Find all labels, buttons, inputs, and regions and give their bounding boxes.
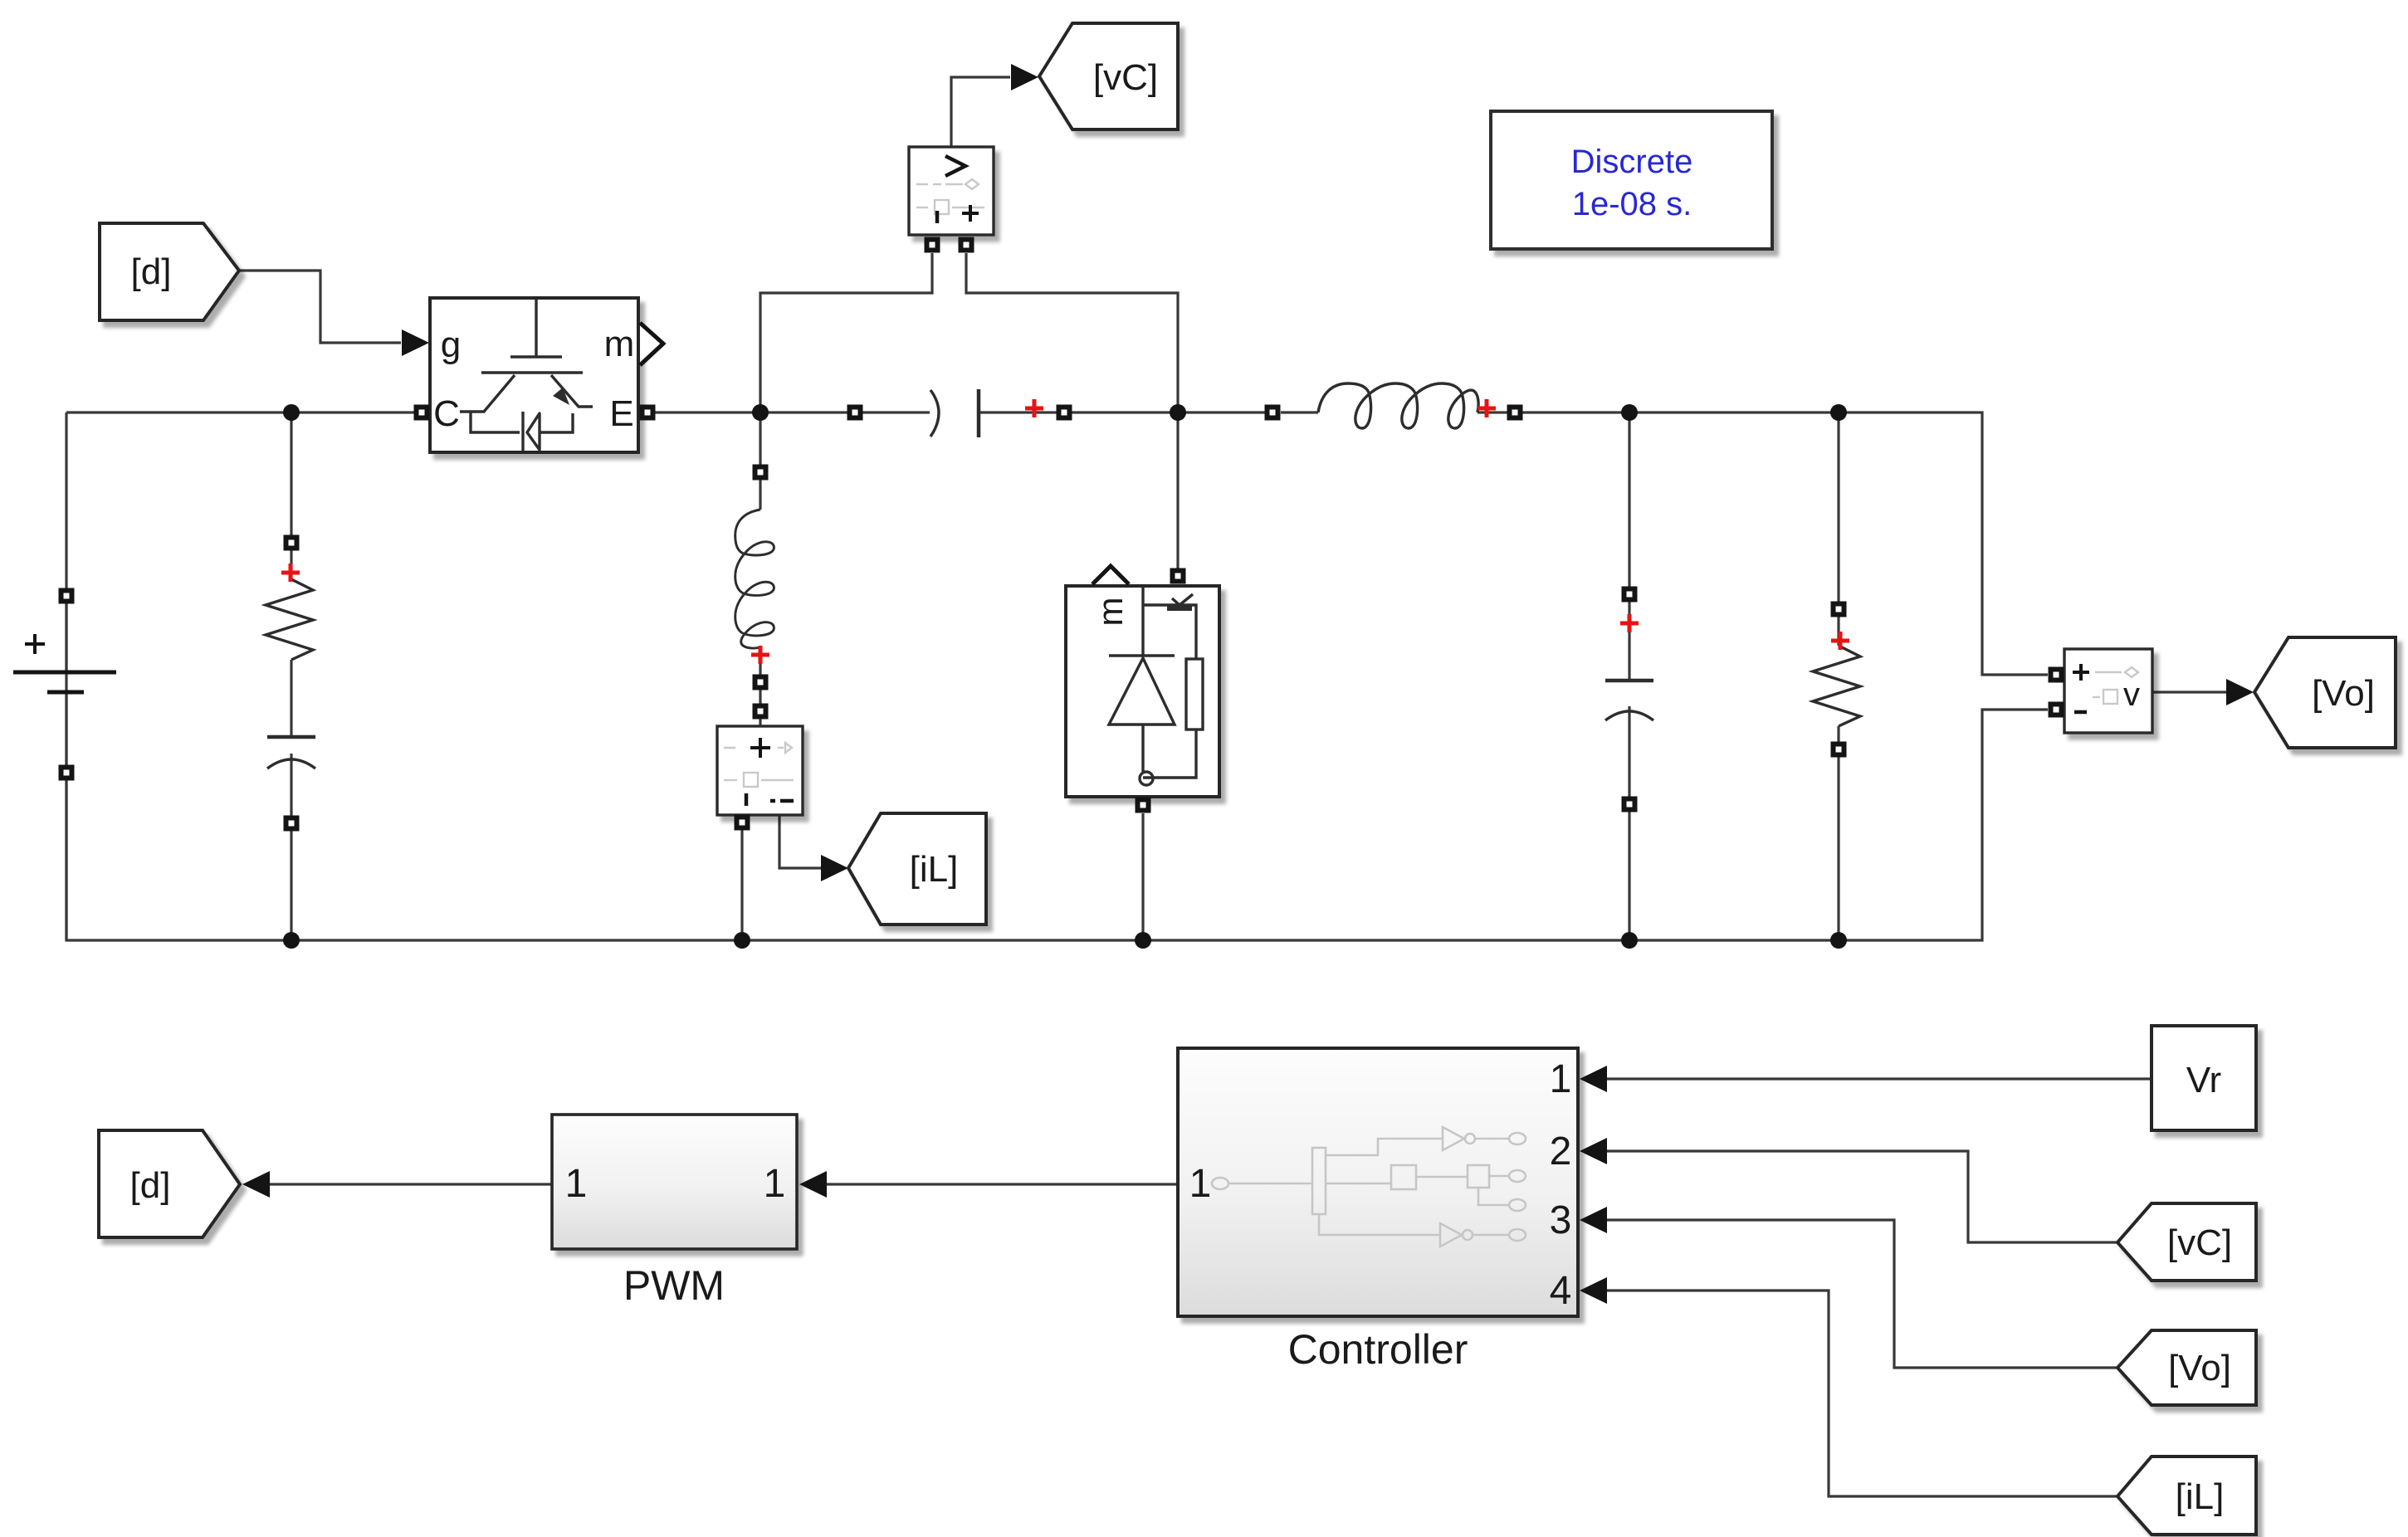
svg-text:E: E: [609, 393, 633, 434]
source block Vr: [2152, 1026, 2256, 1130]
Goto tag [Vo]: [2254, 637, 2396, 748]
svg-text:[vC]: [vC]: [2167, 1222, 2232, 1263]
port square Vm2 plus: [2049, 667, 2064, 683]
port square D1 top: [1170, 568, 1186, 584]
wire iL minus port to bottom bus: [740, 830, 743, 940]
wire Vm1 output to vC goto: [951, 77, 1010, 147]
wire R1C1 damping branch: [290, 412, 292, 940]
port square C1 right: [1057, 405, 1072, 421]
wire L2 to output node and down right edge to Vo+: [1281, 412, 2048, 675]
port square Vm1 plus: [959, 237, 974, 253]
capacitor C2 (output): [1605, 681, 1653, 720]
voltage measurement Vm2 (Vo): [2064, 649, 2152, 733]
port square CM1 top: [753, 704, 769, 720]
IGBT m output chevron: [640, 323, 663, 365]
wire Vm1 plus lead to node D: [966, 253, 1178, 411]
svg-text:Discrete: Discrete: [1571, 144, 1693, 180]
port square Vm2 minus: [2049, 702, 2064, 718]
polarity plus C2: [1620, 614, 1639, 632]
Goto tag [iL]: [848, 813, 986, 925]
wire battery branch: [65, 603, 67, 940]
wire PWM output to d goto: [270, 1183, 552, 1185]
svg-text:m: m: [1091, 598, 1130, 627]
Discrete solver annotation block: [1491, 111, 1772, 249]
resistor R1 (damping): [266, 579, 313, 660]
node junction dot N4 (C2 top): [1621, 404, 1638, 421]
port square D1 bottom: [1136, 798, 1151, 813]
wire Vr to Controller in1: [1607, 1077, 2152, 1080]
node junction dot N3 (diode top): [1170, 404, 1186, 421]
arrow into iL goto: [821, 855, 848, 881]
Goto tag [d] (bottom): [99, 1130, 240, 1237]
wire diode bottom to bus: [1141, 813, 1144, 940]
polarity plus L1: [751, 646, 769, 664]
resistor R2 (load): [1813, 646, 1860, 726]
node junction dot N5 (R2 top): [1830, 404, 1847, 421]
port square L1 top: [753, 465, 769, 481]
wire d goto to IGBT gate: [239, 271, 401, 343]
wire top bus left (source to IGBT C): [66, 411, 415, 413]
svg-text:[iL]: [iL]: [2176, 1476, 2225, 1517]
svg-text:[iL]: [iL]: [910, 849, 959, 890]
subsystem Controller: [1178, 1048, 1578, 1316]
port square C1 left: [847, 405, 863, 421]
svg-text:PWM: PWM: [623, 1262, 725, 1309]
svg-text:3: 3: [1550, 1198, 1572, 1242]
svg-text:[d]: [d]: [131, 251, 172, 292]
wire Vo measurement output: [2152, 690, 2227, 693]
svg-text:Vr: Vr: [2186, 1060, 2221, 1100]
IGBT / Diode block U1: [430, 298, 663, 452]
port square R1 top: [284, 535, 300, 551]
svg-text:1: 1: [1189, 1162, 1212, 1206]
svg-text:4: 4: [1550, 1269, 1572, 1313]
arrow into Controller in4: [1580, 1277, 1607, 1304]
IGBT symbol interior: [460, 300, 593, 451]
Goto tag [vC]: [1039, 23, 1178, 129]
port square E1 plus: [59, 588, 75, 604]
From tag [vC]: [2117, 1203, 2256, 1281]
subsystem PWM: [552, 1115, 797, 1249]
wire C1 right plate to node D: [979, 411, 1265, 413]
svg-text:1: 1: [764, 1162, 786, 1206]
wire IGBT E to node B: [653, 411, 847, 413]
svg-text:C: C: [433, 393, 460, 434]
port square C3 bottom: [284, 816, 300, 832]
port square R2 bottom: [1831, 742, 1847, 758]
svg-text:v: v: [2123, 676, 2140, 713]
wire iL output signal: [779, 815, 822, 868]
Controller ghost icon: [1212, 1127, 1526, 1247]
wire Vm1 minus lead to node B: [760, 253, 932, 411]
polarity plus L2: [1478, 399, 1496, 417]
port square IGBT C: [414, 405, 430, 421]
polarity plus R2: [1831, 632, 1849, 650]
arrow into Controller in2: [1580, 1138, 1607, 1164]
port square L2 left: [1265, 405, 1281, 421]
node junction dot N6 (R1 bottom): [283, 932, 300, 949]
polarity plus C1: [1025, 399, 1043, 417]
arrow into Vo goto: [2226, 679, 2254, 705]
arrow into Controller in3: [1580, 1207, 1607, 1233]
wire R2 load branch: [1837, 412, 1839, 940]
diode block D1: [1066, 566, 1219, 797]
wire L1 branch: [759, 412, 761, 727]
arrow into vC goto: [1011, 64, 1038, 90]
wire vC from-tag to Controller in2: [1607, 1151, 2117, 1242]
svg-text:[d]: [d]: [130, 1165, 171, 1206]
arrow into d goto: [242, 1171, 270, 1198]
polarity plus R1: [281, 564, 300, 582]
node junction dot N10 (R2 bottom): [1830, 932, 1847, 949]
From tag [d] (top): [100, 223, 239, 320]
arrow into IGBT gate: [402, 329, 429, 356]
port square C2 top: [1622, 587, 1638, 603]
port square R2 top: [1831, 602, 1847, 617]
capacitor C3 (damping, series with R1): [267, 737, 315, 768]
node junction dot N9 (C2 bottom): [1621, 932, 1638, 949]
wire Vo from-tag to Controller in3: [1607, 1220, 2117, 1368]
port square L1 bottom: [753, 675, 769, 690]
node junction dot N1 (R1 top): [283, 404, 300, 421]
wire bottom bus: [66, 412, 2048, 940]
svg-text:1e-08 s.: 1e-08 s.: [1572, 186, 1692, 222]
svg-text:[Vo]: [Vo]: [2312, 673, 2375, 714]
svg-text:1: 1: [565, 1162, 588, 1206]
svg-text:m: m: [604, 324, 635, 364]
port square CM1 minus bottom: [735, 815, 750, 831]
wire node D down to diode block: [1176, 412, 1179, 568]
port square E1 minus: [59, 765, 75, 781]
arrow into Controller in1: [1580, 1066, 1607, 1092]
port square IGBT E: [640, 405, 656, 421]
inductor L2 (output filter): [1318, 383, 1478, 428]
wire C2 output cap branch: [1628, 412, 1630, 940]
wire node B to C1 left plate: [862, 411, 930, 413]
wire iL from-tag to Controller in4: [1607, 1291, 2117, 1496]
node junction dot N8 (diode bottom): [1135, 932, 1151, 949]
capacitor C1 (series, top bus): [930, 389, 979, 437]
From tag [iL]: [2117, 1456, 2256, 1535]
svg-text:[vC]: [vC]: [1093, 57, 1158, 98]
node junction dot N2 (L1 top): [752, 404, 769, 421]
svg-text:[Vo]: [Vo]: [2168, 1348, 2231, 1388]
DC voltage source E1: [13, 634, 116, 692]
svg-text:Controller: Controller: [1288, 1326, 1468, 1373]
svg-text:g: g: [441, 324, 461, 365]
port square C2 bottom: [1622, 797, 1638, 812]
voltage measurement Vm1 (vC): [909, 147, 994, 235]
svg-text:2: 2: [1550, 1130, 1572, 1173]
diode m output chevron: [1092, 566, 1129, 584]
arrow into PWM input: [799, 1171, 827, 1198]
wire Controller output to PWM: [827, 1183, 1178, 1185]
node junction dot N7 (iL bottom): [734, 932, 750, 949]
From tag [Vo]: [2117, 1330, 2256, 1405]
port square Vm1 minus: [925, 237, 940, 253]
inductor L1 (input, vertical): [735, 510, 774, 648]
current measurement CM1 (iL): [717, 726, 803, 815]
svg-text:1: 1: [1550, 1057, 1572, 1101]
port square L2 right: [1507, 405, 1523, 421]
